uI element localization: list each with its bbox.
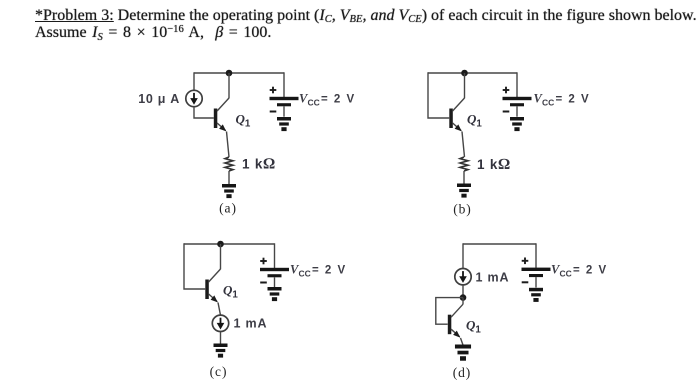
node: collector junction dot (c) <box>217 241 224 248</box>
svg-text:VCC= 2 V: VCC= 2 V <box>290 263 347 279</box>
ground: battery ground (d) <box>529 288 543 302</box>
svg-text:(a): (a) <box>219 201 237 216</box>
svg-text:(b): (b) <box>453 202 471 217</box>
resistor R1 1k (b) <box>460 157 468 171</box>
problem statement text <box>35 7 700 41</box>
wire: rail to battery (b) <box>516 72 518 97</box>
svg-text:Q1: Q1 <box>223 283 238 301</box>
wire: rail to battery (a) <box>283 72 285 97</box>
svg-text:Q1: Q1 <box>467 112 482 130</box>
ground: emitter ground (c) <box>214 344 228 358</box>
svg-text:Q1: Q1 <box>236 112 251 130</box>
node: collector junction dot (a) <box>226 70 233 77</box>
wire: collector wire (c) <box>220 244 222 269</box>
transistor Q1 (d) <box>448 304 463 337</box>
wire: emitter to resistor (b) <box>462 132 465 158</box>
wire: rail to battery (c) <box>274 243 276 268</box>
svg-text:10 μ A: 10 μ A <box>138 92 180 106</box>
wire: rail to battery (d) <box>535 243 537 267</box>
svg-text:VCC= 2 V: VCC= 2 V <box>299 92 356 108</box>
transistor Q1 (b) <box>449 98 464 131</box>
battery VCC (c) <box>260 258 289 288</box>
wire: emitter to ground (d) <box>461 338 464 345</box>
resistor R1 1k (a) <box>225 157 233 171</box>
wire: top rail (d) <box>463 243 536 245</box>
svg-text:VCC= 2 V: VCC= 2 V <box>534 92 591 108</box>
wire: resistor to ground (a) <box>228 171 230 185</box>
wire: emitter to resistor (a) <box>227 132 230 158</box>
wire: current source to ground (c) <box>220 332 222 345</box>
wire: collector wire (a) <box>228 73 230 98</box>
wire: collector wire (d) <box>462 298 464 305</box>
ground: emitter ground (d) <box>455 345 471 361</box>
battery VCC (a) <box>270 87 299 117</box>
battery VCC (d) <box>522 258 551 288</box>
wire: top rail (a) <box>194 72 284 74</box>
ground: battery ground (c) <box>268 287 282 301</box>
wire: top rail (b) <box>428 72 517 74</box>
svg-text:1 kΩ: 1 kΩ <box>477 156 511 173</box>
svg-text:(d): (d) <box>453 365 471 380</box>
wire: emitter to current source (c) <box>218 303 221 316</box>
wire: resistor to ground (b) <box>463 171 465 184</box>
transistor Q1 (a) <box>214 98 229 131</box>
svg-text:1 mA: 1 mA <box>476 271 510 285</box>
svg-text:VCC= 2 V: VCC= 2 V <box>551 262 608 278</box>
battery VCC (b) <box>503 87 532 117</box>
transistor Q1 (c) <box>205 269 220 302</box>
wire: base feedback loop (c) <box>184 243 205 289</box>
wire: current source to node (d) <box>462 285 464 298</box>
node: base-collector junction dot (d) <box>460 294 467 301</box>
ground: battery ground (a) <box>277 117 291 131</box>
current source I1 1mA (d) <box>455 269 471 285</box>
current source I1 1mA (c) <box>212 315 228 331</box>
ground: emitter ground (a) <box>222 184 236 198</box>
wire: collector wire (b) <box>464 73 466 98</box>
wire: base feedback loop (d) <box>436 298 463 325</box>
current source I1 10uA (a) <box>186 90 202 106</box>
svg-text:Q1: Q1 <box>466 318 481 336</box>
svg-text:(c): (c) <box>210 364 228 379</box>
svg-text:1 kΩ: 1 kΩ <box>242 156 276 173</box>
ground: emitter ground (b) <box>457 184 471 198</box>
wire: rail to current source (a) <box>193 72 195 90</box>
wire: top rail (c) <box>184 243 275 245</box>
wire: current source to base (a) <box>194 107 214 118</box>
wire: rail to current source (d) <box>462 243 464 268</box>
node: collector junction dot (b) <box>461 70 468 77</box>
wire: base feedback loop (b) <box>428 72 449 118</box>
svg-text:1 mA: 1 mA <box>234 317 268 331</box>
ground: battery ground (b) <box>510 117 524 131</box>
